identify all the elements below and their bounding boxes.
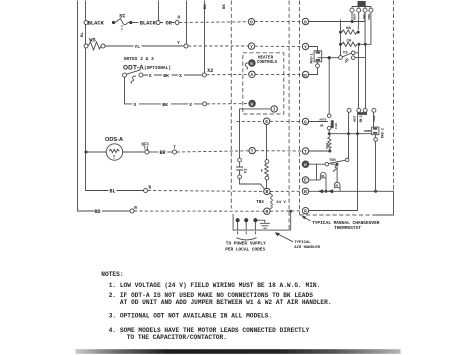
terminal W field xyxy=(203,102,207,106)
wire T to OEH xyxy=(309,150,330,152)
terminal DFC T1 xyxy=(145,150,149,154)
thermostat box bottom right corner xyxy=(375,191,394,215)
svg-text:BR: BR xyxy=(160,150,166,156)
terminal X2 tstat xyxy=(302,71,308,77)
wire dashed W xyxy=(207,103,249,105)
wire dashed B2 xyxy=(270,190,302,192)
wire BR xyxy=(149,151,158,153)
terminal O field xyxy=(175,21,179,25)
svg-text:1. LOW VOLTAGE (24 V) FIELD WI: 1. LOW VOLTAGE (24 V) FIELD WIRING MUST … xyxy=(109,282,321,289)
junction dot SC right xyxy=(129,21,132,24)
terminal Y tstat xyxy=(302,43,308,49)
capacitor F2 xyxy=(236,162,243,175)
svg-text:FAN: FAN xyxy=(334,123,338,129)
wire HA-CA left vertical xyxy=(340,20,342,56)
svg-text:3. OPTIONAL ODT NOT AVAILABLE: 3. OPTIONAL ODT NOT AVAILABLE IN ALL MOD… xyxy=(109,313,272,320)
svg-text:AT OD UNIT AND ADD JUMPER BETW: AT OD UNIT AND ADD JUMPER BETWEEN W1 & W… xyxy=(120,299,332,306)
svg-text:R: R xyxy=(266,210,269,215)
junction T line xyxy=(328,150,331,153)
terminal O ah xyxy=(248,19,254,25)
svg-text:BK: BK xyxy=(163,73,169,79)
switch fan auto-on xyxy=(309,121,328,123)
svg-text:ON: ON xyxy=(320,125,324,128)
terminal WS right xyxy=(101,44,105,48)
wire SM2-4 to NORM xyxy=(373,112,375,127)
wire G down xyxy=(266,124,268,159)
wire ODS right stub xyxy=(123,151,145,153)
wire TS common left xyxy=(318,57,339,59)
junction fan switch bottom xyxy=(328,132,331,135)
terminal G ah xyxy=(263,118,269,124)
lamp HD xyxy=(320,172,326,177)
svg-text:T: T xyxy=(304,150,307,155)
resistor heater vertical xyxy=(265,163,269,176)
terminal T tstat xyxy=(302,148,308,154)
wire resistor to B xyxy=(266,180,268,188)
wire contactor drop 3 BK xyxy=(204,1,206,73)
wire E to lamp1 xyxy=(309,178,321,180)
svg-text:(OPTIONAL): (OPTIONAL) xyxy=(144,65,171,71)
diode arrow 1 xyxy=(318,189,323,193)
svg-text:R: R xyxy=(304,210,307,215)
svg-text:NORM: NORM xyxy=(364,130,371,133)
svg-text:E: E xyxy=(304,179,307,184)
svg-text:ODS-A: ODS-A xyxy=(105,137,123,143)
junction fan line 2 xyxy=(356,132,359,135)
air handler box right edge xyxy=(288,1,290,231)
junction lamp1 leg on B xyxy=(325,190,328,193)
ground wire xyxy=(258,220,265,223)
thermostat box left edge xyxy=(299,1,301,216)
junction RHS-2 drop xyxy=(374,190,377,193)
svg-text:X: X xyxy=(189,102,192,108)
wire YL xyxy=(105,45,133,47)
wire ODS left stub xyxy=(86,151,106,153)
wire R internal xyxy=(309,134,358,211)
wire dashed Y xyxy=(188,45,248,47)
power lead 1 xyxy=(237,218,239,230)
wire dashed B xyxy=(148,190,264,193)
svg-text:RHS-2: RHS-2 xyxy=(382,128,386,138)
svg-text:BLACK: BLACK xyxy=(140,21,157,27)
svg-text:X: X xyxy=(149,73,152,79)
wire X BK X upper xyxy=(143,74,202,76)
terminal R ah xyxy=(264,208,270,214)
svg-text:OR: OR xyxy=(166,21,173,27)
ODT-A sensor squiggle xyxy=(131,76,136,83)
svg-text:TYPICAL: TYPICAL xyxy=(294,241,311,245)
terminal W1 heater xyxy=(249,60,255,66)
svg-text:HEATER: HEATER xyxy=(258,57,274,61)
svg-text:G: G xyxy=(304,120,307,125)
svg-text:GN: GN xyxy=(335,185,339,188)
svg-text:BL: BL xyxy=(110,189,116,195)
svg-text:F: F xyxy=(261,170,263,174)
svg-text:T: T xyxy=(251,149,254,154)
junction TS line xyxy=(328,56,331,59)
svg-text:O: O xyxy=(178,14,181,20)
svg-text:AIR HANDLER: AIR HANDLER xyxy=(294,246,320,250)
svg-text:Y: Y xyxy=(177,40,180,46)
terminal OR-left xyxy=(156,21,160,25)
wire SM1-2 to HA xyxy=(357,19,360,30)
wire W1 left vertical to R line xyxy=(78,1,95,212)
terminal Y ah xyxy=(248,43,254,49)
svg-text:B: B xyxy=(149,186,152,191)
terminal Y field xyxy=(184,44,188,48)
wire left vertical 2 xyxy=(86,1,109,191)
wire B internal xyxy=(309,190,394,192)
svg-text:ODT-A: ODT-A xyxy=(123,64,144,71)
wire lamp1 right leg xyxy=(325,178,327,191)
wire R drop to power line xyxy=(290,211,292,230)
air handler box left edge xyxy=(230,1,232,209)
junction ODS tap xyxy=(85,151,88,154)
resistor terminal top xyxy=(265,160,269,164)
wire J to fuse xyxy=(240,109,272,158)
svg-text:BK: BK xyxy=(204,4,208,9)
wire SM-2 common to fan line xyxy=(357,115,359,134)
wire dashed G xyxy=(237,120,264,122)
wire dashed Y2 xyxy=(255,45,302,47)
diode arrow 2 xyxy=(328,189,333,193)
terminal on line black xyxy=(84,21,88,25)
wire X BK X lower xyxy=(139,103,202,105)
terminal B field xyxy=(144,189,148,193)
svg-text:THERMOSTAT: THERMOSTAT xyxy=(334,225,361,231)
terminal W tstat xyxy=(302,161,308,167)
svg-text:RD: RD xyxy=(95,209,101,215)
svg-text:YL: YL xyxy=(135,44,141,50)
wire RHS-1 to X2 xyxy=(309,68,318,75)
switch SM-1 xyxy=(352,7,371,22)
svg-text:AUTO: AUTO xyxy=(319,119,326,122)
wire dashed R xyxy=(134,210,263,212)
wire contactor drop 1 xyxy=(158,1,160,21)
wire contactor drop 2 xyxy=(186,1,188,44)
arrow to thermostat xyxy=(304,217,311,221)
terminal R tstat xyxy=(302,208,308,214)
wire lamp2 right leg xyxy=(339,188,341,192)
power lead 3 xyxy=(254,218,256,230)
label BLACK right xyxy=(133,22,139,24)
power lead 2 xyxy=(245,218,247,230)
wire dashed T2 xyxy=(256,150,303,152)
fuse F2 terminal top xyxy=(238,158,242,162)
wire Y to RHS-1 xyxy=(309,47,318,51)
terminal A heater xyxy=(249,71,255,77)
terminal on line Y xyxy=(84,44,88,48)
svg-text:BK: BK xyxy=(223,4,227,9)
arrow to air handler xyxy=(278,234,293,242)
wire dashed X2-2 xyxy=(255,73,302,75)
wire dashed R2 xyxy=(270,210,302,212)
junction R line xyxy=(289,210,292,213)
wire SM2-3 riser xyxy=(365,44,367,108)
svg-text:X: X xyxy=(179,73,182,79)
svg-text:TNS: TNS xyxy=(256,201,264,205)
svg-text:BL: BL xyxy=(81,32,85,37)
svg-text:G: G xyxy=(265,120,268,125)
power lead bundle bracket xyxy=(237,238,257,240)
wire dashed O xyxy=(179,21,248,24)
terminal E tstat xyxy=(302,177,308,183)
wire SM2-2 riser xyxy=(358,44,360,108)
wire ODT-A lower leg xyxy=(125,77,133,104)
svg-text:R: R xyxy=(134,206,137,211)
wire SM1-4 down xyxy=(367,12,371,44)
heater controls box xyxy=(243,53,284,114)
svg-text:HEAT: HEAT xyxy=(354,13,357,20)
svg-text:T: T xyxy=(173,145,176,151)
svg-text:RD: RD xyxy=(321,175,325,178)
svg-text:F2: F2 xyxy=(245,168,249,173)
wire power line xyxy=(233,214,291,230)
svg-text:CONTROLS: CONTROLS xyxy=(257,61,278,65)
junction lamp2 tap xyxy=(336,163,339,166)
wire dashed T xyxy=(177,151,249,152)
svg-text:CA: CA xyxy=(347,39,352,43)
terminal W2 heater xyxy=(249,100,255,106)
thermostat box bottom edge xyxy=(300,214,375,216)
wire RD to terminal R xyxy=(102,210,130,212)
svg-text:B: B xyxy=(304,190,307,195)
resistor terminal bottom xyxy=(265,176,269,180)
wire fan switch feed from TS xyxy=(328,58,330,114)
terminal B tstat xyxy=(302,188,308,194)
terminal X2 field xyxy=(202,73,206,77)
svg-text:BK: BK xyxy=(162,102,168,108)
terminal J heater xyxy=(271,106,277,112)
junction SM1 heat xyxy=(351,20,354,23)
fuse F2 terminal bottom xyxy=(238,175,242,179)
wire RHS-2 to B xyxy=(375,141,377,191)
svg-text:B: B xyxy=(266,190,269,195)
wire O to SM-1 xyxy=(309,12,365,21)
wire F2 to B xyxy=(240,179,265,189)
wire dashed X2 xyxy=(207,73,249,75)
junction fan line 1 xyxy=(347,132,350,135)
svg-text:BLACK: BLACK xyxy=(88,21,105,27)
svg-text:PER LOCAL CODES: PER LOCAL CODES xyxy=(225,246,265,252)
svg-text:Y: Y xyxy=(304,45,307,50)
wire lamp2 top leg xyxy=(336,164,338,182)
wire SM2-1 to TSH xyxy=(347,112,348,160)
junction dot SC left xyxy=(112,21,115,24)
terminal B ah xyxy=(264,188,270,194)
wire BL to terminal B xyxy=(117,190,144,192)
thermostat box right edge xyxy=(393,1,395,216)
ground xyxy=(260,223,270,228)
terminal O tstat xyxy=(302,18,308,24)
wire dashed G2 xyxy=(270,120,302,122)
svg-text:X2: X2 xyxy=(207,68,213,74)
wire W to TSH xyxy=(309,163,325,165)
terminal R field xyxy=(130,209,134,213)
wire SM1-3 down xyxy=(364,12,366,44)
wire W1 hook xyxy=(245,63,248,69)
terminal T ah xyxy=(249,147,255,153)
TSH sensor squiggle xyxy=(334,165,339,172)
svg-text:Y: Y xyxy=(250,45,253,50)
RHS-2 bottom terminal xyxy=(375,135,377,138)
wire W to E link xyxy=(316,164,318,180)
switch ODT-A xyxy=(123,73,127,77)
svg-text:NOTES:: NOTES: xyxy=(101,271,123,278)
svg-text:NOTES 2 & 3: NOTES 2 & 3 xyxy=(124,56,154,62)
svg-text:O: O xyxy=(250,21,253,26)
wire fan line xyxy=(329,130,371,134)
svg-text:TO THE CAPACITOR/CONTACTOR.: TO THE CAPACITOR/CONTACTOR. xyxy=(127,334,227,341)
svg-text:HEAT: HEAT xyxy=(354,115,357,122)
terminal T field xyxy=(173,150,177,154)
svg-text:O: O xyxy=(304,20,307,25)
svg-text:24 V: 24 V xyxy=(276,201,286,205)
wire dashed O2 xyxy=(255,21,302,23)
svg-text:TO POWER SUPPLY: TO POWER SUPPLY xyxy=(226,241,266,247)
svg-text:SM-2: SM-2 xyxy=(359,115,363,122)
RHS-1 bottom terminal xyxy=(317,62,319,64)
terminal G tstat xyxy=(302,118,308,124)
svg-text:X: X xyxy=(134,102,137,108)
lamp GN xyxy=(334,182,340,187)
switch SM-2 xyxy=(347,108,351,112)
